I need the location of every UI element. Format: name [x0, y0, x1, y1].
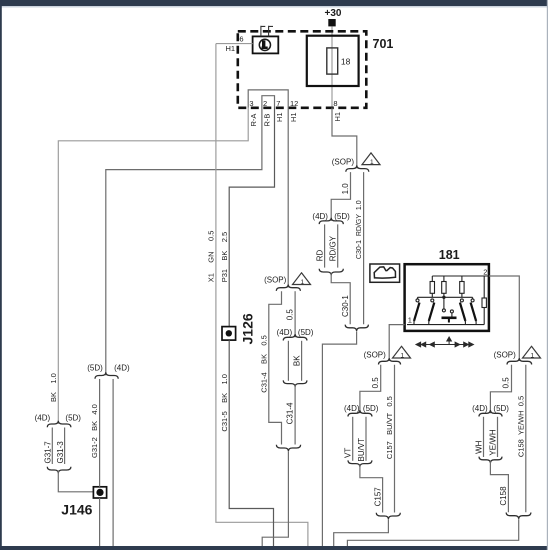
wire C31-4 to bottom: [262, 451, 288, 546]
svg-text:C158 YE/WH 0.5: C158 YE/WH 0.5: [516, 396, 525, 457]
svg-text:0.5: 0.5: [502, 377, 511, 389]
wire C158 after merge: [490, 461, 508, 512]
wire into splice J146: [58, 470, 93, 491]
svg-text:(5D): (5D): [334, 212, 350, 221]
svg-text:(SOP): (SOP): [332, 157, 355, 166]
wire C31-4 4D loop branch: [269, 291, 282, 444]
top page border bar: [0, 0, 548, 6]
181 internal resistor 3: [461, 276, 463, 282]
warning triangle 1 C158: [523, 346, 541, 359]
svg-text:J126: J126: [239, 313, 255, 344]
fuse 18 box: [307, 36, 359, 86]
181 internal mid rail: [418, 296, 473, 298]
wire 0.5 left branch C157: [360, 365, 381, 414]
split brace VT variants: [348, 410, 372, 416]
wire C158 YEWH 0.5 main right: [525, 365, 527, 512]
wire RD 4D variant: [324, 224, 326, 267]
pin stub B on lamp box top: [269, 26, 273, 37]
svg-text:1: 1: [408, 316, 412, 325]
connector brace C30-1: [345, 325, 368, 331]
svg-text:P31 BK 2.5: P31 BK 2.5: [220, 232, 229, 282]
svg-text:(4D): (4D): [35, 413, 51, 422]
internal jumper pins 3-12: [248, 90, 288, 108]
merge brace RD variants: [319, 269, 343, 275]
181 internal resistor 2: [443, 276, 445, 282]
svg-text:701: 701: [373, 37, 394, 51]
svg-text:(5D): (5D): [298, 328, 314, 337]
svg-text:H1: H1: [275, 112, 284, 122]
split brace SOP C31-4: [276, 285, 300, 291]
split brace SOP C157: [379, 358, 401, 364]
svg-text:C158: C158: [499, 486, 508, 506]
wire C30-1 RDGY 1.0 main right: [363, 172, 365, 324]
wire below J146 to bottom: [99, 498, 101, 546]
svg-text:1: 1: [400, 353, 404, 360]
svg-text:3: 3: [249, 99, 253, 108]
wire BK 4D variant: [287, 341, 289, 381]
svg-text:181: 181: [439, 248, 460, 262]
svg-text:1: 1: [530, 353, 534, 360]
svg-text:H1: H1: [226, 44, 236, 53]
svg-text:WH: WH: [475, 440, 484, 454]
component 701 dashed enclosure: [238, 31, 366, 108]
wire pin12 H1 down to SOP: [287, 108, 289, 288]
svg-text:(SOP): (SOP): [364, 351, 387, 360]
svg-text:VT: VT: [344, 448, 353, 458]
svg-text:2: 2: [263, 99, 267, 108]
svg-text:0.5: 0.5: [286, 309, 295, 321]
fuse 18 element: [327, 48, 338, 74]
svg-text:R-B: R-B: [263, 114, 272, 127]
181 internal top bus: [432, 275, 489, 277]
svg-text:BU/VT: BU/VT: [357, 438, 366, 462]
connector brace C31-4: [276, 445, 300, 451]
svg-text:H1: H1: [333, 112, 342, 122]
movement arrows below 181: [416, 337, 473, 347]
wire C158 to bottom: [347, 519, 518, 546]
component 181 box: [405, 264, 489, 331]
connector brace C158: [506, 513, 531, 519]
svg-text:(5D): (5D): [87, 363, 103, 372]
svg-text:8: 8: [333, 99, 337, 108]
right page border line: [547, 0, 548, 550]
svg-text:(4D): (4D): [114, 363, 130, 372]
svg-text:(5D): (5D): [363, 404, 379, 413]
svg-text:BK: BK: [292, 355, 301, 366]
wire 5D main branch: [294, 291, 296, 337]
wire 4D branch to bottom: [112, 379, 114, 546]
warning triangle 1 right: [362, 153, 380, 166]
lamp L1 circle symbol: [259, 39, 270, 50]
merge brace BK variants: [283, 380, 307, 386]
wire C31-4 after merge: [294, 385, 296, 445]
convertible icon box: [370, 264, 400, 282]
internal jumper pins 2-7: [262, 96, 275, 108]
node G31-3 variant line: [64, 428, 66, 465]
svg-text:R-A: R-A: [249, 114, 258, 127]
splice J126 symbol: [222, 327, 236, 341]
svg-text:(SOP): (SOP): [264, 275, 287, 284]
wire BK 5D variant: [301, 341, 303, 381]
svg-text:C30-1: C30-1: [341, 295, 350, 317]
wire VT 4D variant: [352, 417, 354, 461]
merge brace WH variants: [479, 457, 502, 463]
svg-text:C157: C157: [373, 487, 382, 507]
svg-text:C31-4: C31-4: [286, 402, 295, 424]
wire G31-2 BK 4.0 to J146: [99, 379, 101, 487]
svg-text:12: 12: [290, 99, 298, 108]
warning triangle 1 mid-left: [293, 273, 311, 286]
pin stub A on lamp box top: [261, 26, 265, 37]
181 center T contact: [442, 316, 457, 319]
svg-text:(SOP): (SOP): [494, 351, 517, 360]
svg-text:C30-1 RD/GY 1.0: C30-1 RD/GY 1.0: [356, 200, 363, 259]
wire pin8 H1 down to SOP right: [332, 108, 357, 169]
wire C31-5 BK 1.0 below J126: [229, 340, 273, 546]
svg-text:7: 7: [276, 99, 280, 108]
svg-text:RD: RD: [315, 250, 324, 262]
svg-text:1: 1: [300, 279, 304, 286]
svg-text:C157 BU/VT 0.5: C157 BU/VT 0.5: [385, 396, 394, 459]
wire C30-1 after merge: [331, 273, 350, 324]
wire R-A pin3 down-left: [58, 108, 248, 424]
wire RDGY 5D variant: [337, 224, 339, 267]
svg-text:J146: J146: [61, 502, 92, 518]
svg-text:(4D): (4D): [344, 404, 360, 413]
wire 1.0 left branch: [331, 172, 350, 221]
svg-text:X1 GN 0.5: X1 GN 0.5: [207, 231, 216, 283]
merge brace G31: [47, 467, 71, 473]
181 center junction: [442, 296, 445, 299]
wire C157 BUVT 0.5 main right: [394, 365, 396, 513]
wire X1 GN 0.5 from lamp to bottom: [216, 44, 308, 546]
wire YEWH 5D variant: [497, 417, 499, 457]
svg-text:H1: H1: [289, 112, 298, 122]
connector brace C157: [376, 513, 400, 519]
bottom page border bar: [0, 546, 548, 550]
wire 0.5 left branch C158: [490, 365, 511, 414]
svg-text:6: 6: [239, 35, 243, 44]
181 switch blade 4: [471, 303, 477, 322]
wire lamp pin 6 to H1: [216, 43, 253, 45]
lamp L1 element fill: [261, 40, 267, 49]
warning triangle 1 C157: [393, 346, 411, 359]
svg-text:(4D): (4D): [312, 212, 328, 221]
split brace BK variants: [283, 334, 307, 340]
wire BUVT 5D variant: [365, 417, 367, 461]
svg-text:G31-2 BK 4.0: G31-2 BK 4.0: [90, 404, 99, 458]
svg-text:G31-3: G31-3: [56, 441, 65, 464]
wire 181 pin1 down to SOP: [389, 325, 404, 361]
svg-text:1: 1: [370, 159, 374, 166]
lamp L1 box (cigarette lighter illumination): [253, 36, 279, 53]
split brace G31: [47, 421, 71, 427]
svg-text:18: 18: [341, 56, 351, 66]
181 bottom rail: [407, 324, 484, 326]
181 switch blade 1: [414, 303, 420, 322]
wire C157 after merge: [360, 465, 383, 513]
181 switch blade 2: [429, 303, 435, 322]
svg-text:G31-7: G31-7: [43, 441, 52, 464]
svg-text:BK 1.0: BK 1.0: [49, 373, 58, 402]
split brace WH variants: [479, 410, 502, 416]
181 right element: [483, 276, 485, 298]
split brace SOP C30-1: [346, 165, 369, 171]
wire WH 4D variant: [483, 417, 485, 457]
svg-text:0.5: 0.5: [371, 377, 380, 389]
wire C157 to bottom: [334, 519, 389, 546]
svg-text:YE/WH: YE/WH: [489, 429, 498, 455]
svg-text:2: 2: [483, 267, 487, 276]
splice J146 symbol: [93, 487, 106, 498]
svg-text:1.0: 1.0: [341, 183, 350, 195]
node +30 terminal square: [328, 19, 335, 26]
svg-text:C31-5 BK 1.0: C31-5 BK 1.0: [220, 374, 229, 432]
svg-text:(5D): (5D): [65, 413, 81, 422]
wire 181 pin2 down to SOP: [489, 276, 519, 361]
convertible icon silhouette: [374, 267, 395, 278]
svg-text:(4D): (4D): [472, 404, 488, 413]
split brace SOP C158: [507, 358, 532, 364]
181 internal resistor 1: [431, 276, 433, 282]
svg-text:RD/GY: RD/GY: [328, 235, 337, 261]
wire C30-1 to bottom: [322, 331, 356, 546]
181 contact circles: [416, 299, 419, 302]
181 switch blade 3: [460, 303, 466, 322]
node G31-7 variant line: [51, 428, 53, 465]
svg-text:C31-4 BK 0.5: C31-4 BK 0.5: [259, 335, 268, 393]
svg-text:(4D): (4D): [277, 328, 293, 337]
wire R-B pin2 down-left: [106, 108, 262, 376]
left page border line: [0, 0, 2, 550]
wire P31 BK 2.5 pin7 to J126: [229, 108, 274, 327]
split brace at J146: [95, 372, 118, 378]
merge brace VT variants: [348, 460, 372, 466]
svg-text:(5D): (5D): [493, 404, 509, 413]
split brace RD variants: [319, 218, 343, 224]
wire +30 feed to fuse 18: [331, 26, 333, 107]
svg-text:+30: +30: [325, 8, 342, 19]
